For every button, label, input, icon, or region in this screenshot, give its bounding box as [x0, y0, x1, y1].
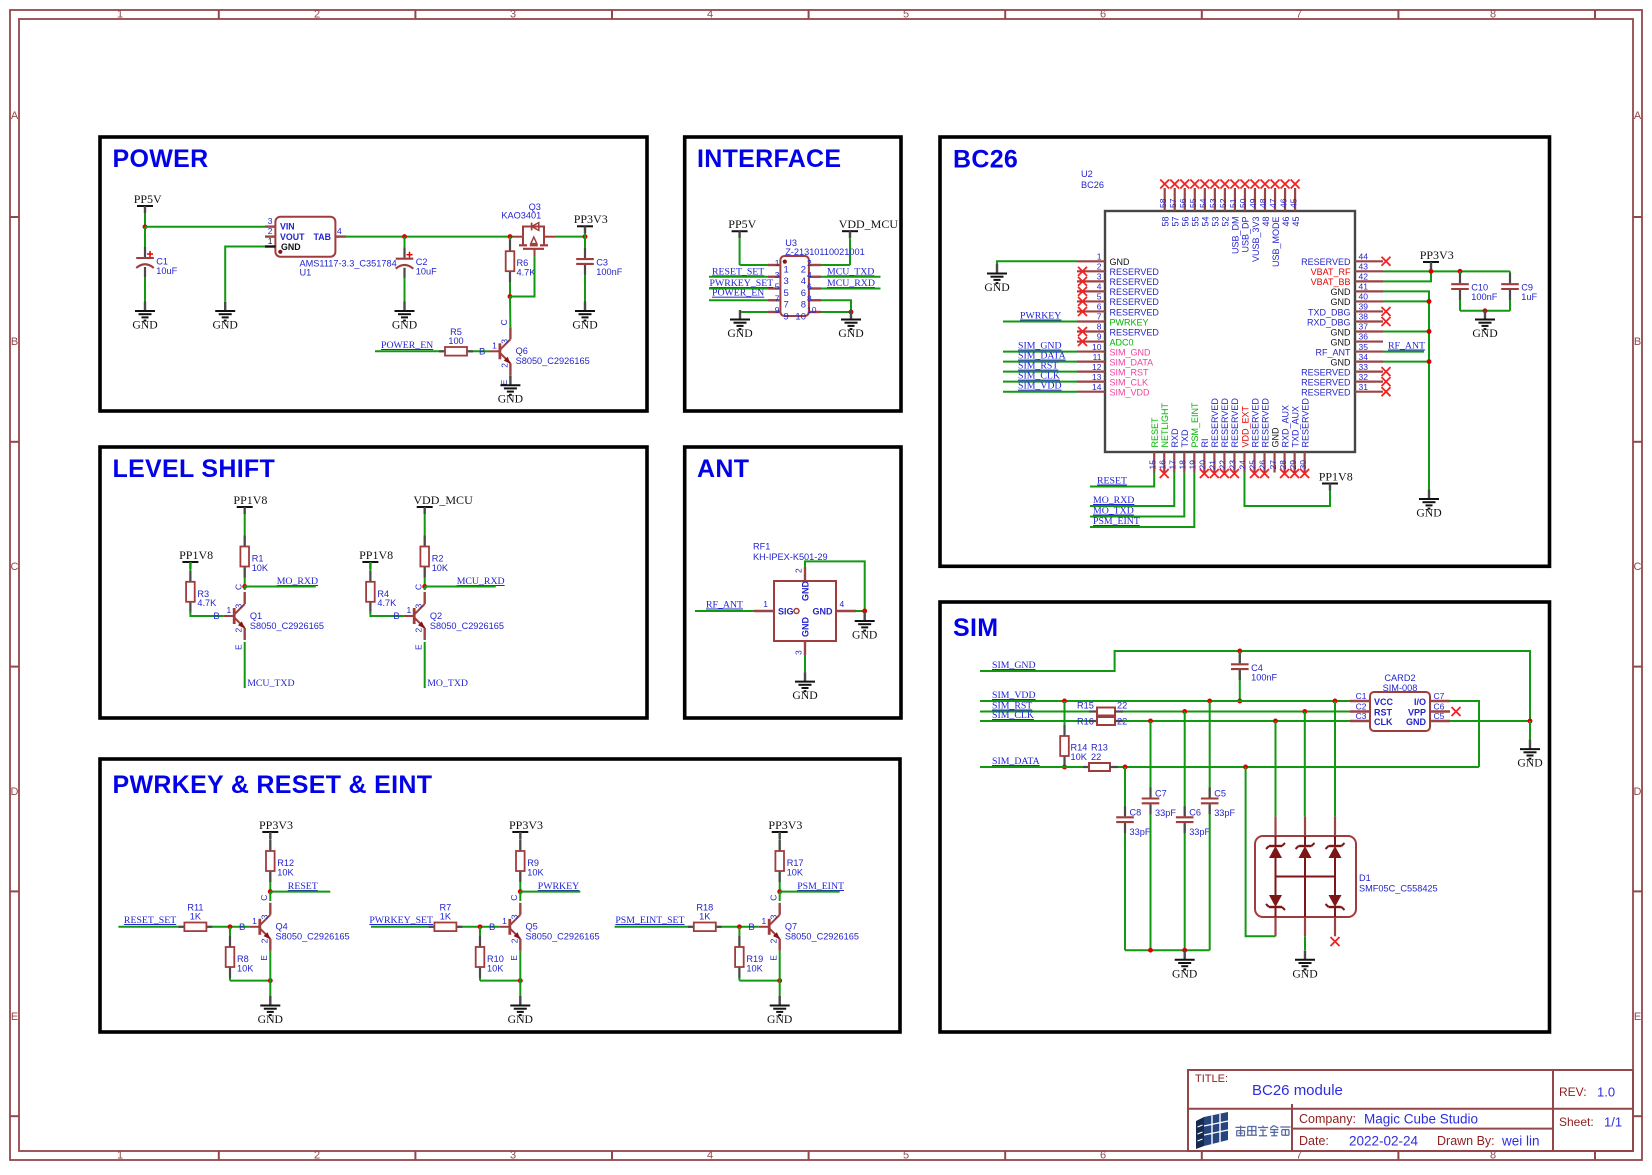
wire RF1 pin4: [856, 610, 865, 612]
wire R10 to emitter: [480, 980, 520, 982]
wire R11 to base: [212, 926, 249, 928]
svg-text:32: 32: [1359, 372, 1369, 382]
ground Q4: [258, 996, 283, 1026]
net label POWER_EN: [375, 340, 434, 351]
resistor R6: [506, 237, 537, 297]
svg-text:GND: GND: [792, 689, 817, 702]
svg-text:RESERVED: RESERVED: [1110, 327, 1160, 337]
svg-text:51: 51: [1228, 198, 1238, 208]
svg-text:RF_ANT: RF_ANT: [706, 600, 743, 611]
node junction C10 top: [1458, 269, 1463, 274]
ground bc26 rail: [1416, 490, 1441, 520]
ground under U1: [213, 302, 238, 332]
svg-text:10: 10: [807, 305, 817, 315]
wire U2 pin1 to ground: [997, 261, 1077, 264]
node junction C2: [402, 234, 407, 239]
svg-text:SIM_VDD: SIM_VDD: [992, 690, 1036, 701]
power flag PP1V8: [233, 493, 267, 538]
svg-text:ANT: ANT: [697, 455, 749, 483]
svg-text:6: 6: [1097, 302, 1102, 312]
svg-text:3: 3: [509, 914, 519, 919]
svg-text:S8050_C2926165: S8050_C2926165: [250, 621, 324, 631]
svg-text:7: 7: [1097, 312, 1102, 322]
transistor Q2: [393, 584, 504, 650]
svg-text:GND: GND: [1292, 967, 1317, 980]
svg-text:GND: GND: [838, 327, 863, 340]
ground under RF1: [792, 672, 817, 702]
svg-text:SIM_VDD: SIM_VDD: [1018, 381, 1062, 392]
wire SIM_VDD to D1: [1334, 701, 1336, 817]
svg-text:B: B: [393, 611, 399, 622]
wire R15 to card: [1123, 711, 1350, 713]
svg-text:VDD_EXT: VDD_EXT: [1240, 405, 1250, 447]
wire R16 to card: [1123, 720, 1350, 722]
svg-text:18: 18: [1177, 460, 1187, 470]
node junction C4 top: [1237, 649, 1242, 654]
svg-text:E: E: [769, 955, 779, 961]
svg-text:37: 37: [1359, 322, 1369, 332]
svg-text:B: B: [1634, 336, 1641, 348]
regulator U1 AMS1117-3.3: [265, 216, 397, 277]
node junction R13 right: [1123, 765, 1128, 770]
company logo building icon: [1196, 1112, 1228, 1149]
svg-text:4: 4: [807, 270, 812, 280]
svg-text:RI: RI: [1200, 439, 1210, 448]
svg-text:GND: GND: [213, 319, 238, 332]
capacitor C2: [396, 237, 437, 302]
svg-text:PP3V3: PP3V3: [1420, 248, 1454, 262]
wire Q4 emitter down: [269, 951, 271, 996]
svg-text:POWER_EN: POWER_EN: [712, 288, 764, 299]
svg-text:Q4: Q4: [276, 922, 288, 932]
svg-text:4.7K: 4.7K: [197, 598, 217, 608]
svg-text:C: C: [769, 895, 779, 901]
power flag PP3V3 of POWER: [574, 212, 608, 237]
wire card IO loop to SIM_DATA: [1450, 701, 1479, 767]
net label PWRKEY: [520, 881, 580, 892]
resistor R8: [226, 927, 255, 981]
svg-text:B: B: [489, 922, 495, 933]
node junction D1 vdd: [1333, 699, 1338, 704]
svg-text:6: 6: [1100, 9, 1106, 21]
svg-text:3: 3: [414, 604, 424, 609]
svg-text:RESERVED: RESERVED: [1230, 398, 1240, 448]
wire SIM_DATA to D1 bottom: [1246, 767, 1276, 936]
title block: [1188, 1070, 1633, 1151]
resistor R16: [1077, 717, 1127, 727]
svg-text:A: A: [11, 110, 19, 122]
svg-text:GND: GND: [852, 629, 877, 642]
svg-text:9: 9: [1097, 332, 1102, 342]
svg-text:RESET: RESET: [288, 881, 318, 892]
net label PSM_EINT_SET: [615, 915, 688, 927]
wire Q7 emitter down: [779, 951, 781, 996]
svg-text:GND: GND: [1517, 757, 1542, 770]
svg-text:POWER_EN: POWER_EN: [381, 340, 433, 351]
svg-text:PP1V8: PP1V8: [359, 548, 393, 562]
ground under Q6: [498, 376, 523, 406]
wire SIM_CLK to D1: [1275, 721, 1277, 817]
svg-text:7: 7: [775, 293, 780, 303]
svg-text:52: 52: [1218, 198, 1228, 208]
svg-text:GND: GND: [498, 393, 523, 406]
svg-text:RESERVED: RESERVED: [1301, 367, 1351, 377]
power flag PP3V3 bc26: [1420, 248, 1454, 272]
net label SIM_VDD bc26: [1003, 381, 1077, 392]
resistor R13: [1083, 743, 1118, 772]
svg-text:VCC: VCC: [1374, 697, 1394, 707]
svg-text:C: C: [11, 561, 19, 573]
svg-text:31: 31: [1359, 382, 1369, 392]
wire R7 to base: [462, 926, 499, 928]
INTERFACE section box: [685, 137, 901, 411]
resistor R9: [516, 840, 545, 892]
capacitor C8: [1116, 767, 1151, 950]
svg-text:RXD: RXD: [1170, 428, 1180, 448]
svg-text:RST: RST: [1374, 708, 1393, 718]
svg-text:1K: 1K: [190, 911, 202, 921]
svg-text:57: 57: [1171, 217, 1181, 227]
svg-text:11: 11: [1093, 352, 1102, 362]
svg-text:S8050_C2926165: S8050_C2926165: [785, 932, 859, 942]
svg-text:PP1V8: PP1V8: [1319, 469, 1353, 483]
svg-text:3: 3: [1097, 272, 1102, 282]
svg-text:48: 48: [1261, 217, 1271, 227]
tvs diode D1 SMF05C: [1255, 836, 1438, 917]
svg-text:39: 39: [1359, 302, 1369, 312]
svg-text:C3: C3: [1356, 711, 1367, 721]
svg-text:8: 8: [801, 300, 806, 311]
node junction R6 bottom: [508, 294, 513, 299]
svg-text:Drawn By:: Drawn By:: [1437, 1134, 1495, 1148]
svg-text:AMS1117-3.3_C351784: AMS1117-3.3_C351784: [300, 258, 397, 268]
svg-text:8: 8: [1490, 9, 1496, 21]
node junction D1 data: [1243, 765, 1248, 770]
svg-text:55: 55: [1191, 217, 1201, 227]
resistor R10: [476, 927, 505, 981]
svg-text:GND: GND: [508, 1013, 533, 1026]
svg-text:4.7K: 4.7K: [517, 267, 537, 277]
svg-text:RESERVED: RESERVED: [1110, 297, 1160, 307]
wire U2 gnd pins to rail: [1383, 291, 1429, 489]
svg-text:PSM_EINT: PSM_EINT: [797, 881, 844, 892]
wire Q2 collector: [424, 587, 426, 591]
svg-text:RXD_DBG: RXD_DBG: [1307, 317, 1351, 327]
svg-text:RESERVED: RESERVED: [1301, 377, 1351, 387]
svg-text:C7: C7: [1155, 789, 1167, 799]
svg-text:MO_TXD: MO_TXD: [427, 678, 468, 689]
IC U2 BC26 body: [1105, 211, 1355, 452]
svg-text:VPP: VPP: [1408, 708, 1426, 718]
node junction PP5V: [143, 224, 148, 229]
svg-text:43: 43: [1359, 262, 1369, 272]
svg-text:10K: 10K: [237, 963, 254, 973]
svg-text:8: 8: [807, 293, 812, 303]
ground caps sim: [1172, 950, 1197, 980]
node junction C4 bottom: [1237, 699, 1242, 704]
svg-text:36: 36: [1359, 332, 1369, 342]
net label PSM_EINT: [780, 881, 844, 892]
node junction R12 bottom: [268, 889, 273, 894]
wire VBAT_RF pin43 to PP3V3: [1383, 270, 1510, 272]
capacitor C9: [1501, 271, 1537, 310]
svg-text:7: 7: [784, 300, 789, 311]
svg-text:27: 27: [1268, 460, 1278, 470]
ground under C1: [132, 302, 157, 332]
svg-text:26: 26: [1258, 460, 1268, 470]
BC26 section box: [940, 137, 1550, 566]
svg-text:1K: 1K: [699, 911, 711, 921]
svg-text:22: 22: [1091, 752, 1101, 762]
header U3 Z-21310110021001: [768, 238, 865, 322]
ground under D1: [1292, 950, 1317, 980]
svg-text:4: 4: [840, 599, 845, 609]
net label POWER_EN interface: [709, 288, 768, 301]
svg-text:17: 17: [1167, 460, 1177, 470]
svg-text:1: 1: [492, 340, 497, 350]
svg-text:C: C: [509, 895, 519, 901]
svg-text:9: 9: [784, 311, 789, 322]
svg-text:GND: GND: [1331, 297, 1352, 307]
svg-text:100: 100: [448, 336, 463, 346]
svg-text:10K: 10K: [787, 867, 804, 877]
svg-text:10: 10: [1092, 342, 1102, 352]
ground card sim: [1517, 740, 1542, 770]
net label PWRKEY bc26: [1003, 311, 1077, 322]
svg-text:57: 57: [1168, 198, 1178, 208]
svg-text:3: 3: [769, 914, 779, 919]
svg-text:45: 45: [1288, 198, 1298, 208]
wire VBAT_BB pin42: [1383, 271, 1431, 281]
svg-text:1: 1: [268, 236, 273, 246]
svg-text:MCU_RXD: MCU_RXD: [827, 278, 875, 289]
svg-text:5: 5: [903, 9, 909, 21]
svg-text:10uF: 10uF: [416, 267, 437, 277]
wire U3 pin8 pin10 to ground: [821, 300, 851, 312]
svg-text:C: C: [1634, 561, 1642, 573]
power flag PP3V3 Q5: [509, 818, 543, 841]
svg-text:1: 1: [775, 258, 780, 268]
svg-text:10K: 10K: [432, 563, 449, 573]
net label MO_TXD bc26: [1090, 473, 1184, 517]
svg-text:PP5V: PP5V: [134, 192, 162, 206]
wire SIM_RST to D1: [1304, 712, 1306, 817]
wire R18 to base: [722, 926, 759, 928]
transistor Q4: [239, 895, 350, 961]
wire U1 GND pin to ground: [225, 247, 265, 302]
wire VDD_MCU to U3 pin2: [821, 264, 850, 266]
svg-text:3: 3: [259, 914, 269, 919]
svg-text:1: 1: [117, 1150, 123, 1162]
svg-text:E: E: [259, 955, 269, 961]
connector RF1 KH-IPEX-K501-29: [753, 542, 856, 656]
svg-text:54: 54: [1201, 217, 1211, 227]
svg-text:GND: GND: [1331, 287, 1352, 297]
node junction R14 top: [1062, 699, 1067, 704]
net label RESET: [270, 881, 330, 892]
svg-text:3: 3: [510, 1150, 516, 1162]
net label SIM_VDD sim: [980, 690, 1350, 701]
svg-text:33pF: 33pF: [1155, 808, 1176, 818]
svg-text:33pF: 33pF: [1214, 808, 1235, 818]
svg-text:52: 52: [1221, 217, 1231, 227]
svg-text:55: 55: [1188, 198, 1198, 208]
wire R5 to Q6 base: [478, 350, 490, 352]
wire RF1 pin3 to ground: [804, 655, 806, 672]
svg-text:PWRKEY & RESET & EINT: PWRKEY & RESET & EINT: [113, 771, 433, 799]
svg-text:2: 2: [268, 226, 273, 236]
svg-text:1: 1: [502, 916, 507, 926]
resistor R17: [775, 840, 804, 892]
sim card CARD2 SIM-008: [1350, 673, 1450, 731]
svg-text:4: 4: [1097, 282, 1102, 292]
svg-text:100nF: 100nF: [1471, 292, 1497, 302]
svg-text:1: 1: [784, 264, 789, 275]
svg-text:C2: C2: [416, 257, 428, 267]
POWER section box: [100, 137, 647, 411]
node junction PP3V3 bc26: [1429, 269, 1434, 274]
svg-text:54: 54: [1198, 198, 1208, 208]
node junction R17 bottom: [777, 889, 782, 894]
svg-text:C2: C2: [1356, 702, 1367, 712]
svg-text:GND: GND: [1406, 717, 1427, 727]
svg-text:3: 3: [499, 339, 509, 344]
net label SIM_RST bc26: [1003, 361, 1077, 372]
svg-text:PP5V: PP5V: [728, 217, 756, 231]
svg-text:10: 10: [795, 311, 806, 322]
svg-text:SIM_CLK: SIM_CLK: [992, 710, 1034, 721]
svg-text:S8050_C2926165: S8050_C2926165: [526, 932, 600, 942]
node junction pin10 gnd: [849, 310, 854, 315]
svg-text:34: 34: [1359, 352, 1369, 362]
svg-text:100nF: 100nF: [596, 267, 622, 277]
svg-text:SIM_DATA: SIM_DATA: [992, 756, 1040, 767]
svg-text:2022-02-24: 2022-02-24: [1349, 1134, 1419, 1149]
svg-text:PP1V8: PP1V8: [179, 548, 213, 562]
svg-text:TITLE:: TITLE:: [1195, 1073, 1228, 1085]
svg-text:19: 19: [1188, 460, 1198, 470]
svg-text:5: 5: [1097, 292, 1102, 302]
svg-text:1: 1: [117, 9, 123, 21]
svg-text:RESERVED: RESERVED: [1260, 398, 1270, 448]
svg-text:C: C: [259, 895, 269, 901]
svg-text:RESET: RESET: [1150, 417, 1160, 448]
capacitor C1: [136, 227, 177, 302]
node junction D1 rst: [1302, 709, 1307, 714]
wire D1 middle bottom to ground: [1304, 936, 1306, 950]
svg-text:13: 13: [1092, 372, 1102, 382]
svg-text:PP3V3: PP3V3: [509, 818, 543, 832]
svg-text:GND: GND: [801, 617, 811, 638]
svg-text:BC26: BC26: [1081, 180, 1104, 190]
net label PWRKEY_SET: [369, 915, 433, 927]
svg-text:A: A: [1634, 110, 1642, 122]
svg-text:2: 2: [794, 568, 804, 573]
svg-text:47: 47: [1268, 198, 1278, 208]
svg-text:MO_RXD: MO_RXD: [277, 576, 318, 587]
svg-text:B: B: [239, 922, 245, 933]
power flag PP3V3 Q4: [259, 818, 293, 841]
svg-text:C5: C5: [1434, 711, 1445, 721]
svg-text:4: 4: [707, 9, 713, 21]
svg-text:20: 20: [1198, 460, 1208, 470]
resistor R1: [240, 536, 269, 587]
svg-text:GND: GND: [813, 607, 834, 617]
svg-text:C7: C7: [1434, 691, 1445, 701]
svg-text:R16: R16: [1077, 717, 1094, 727]
capacitor C10: [1451, 271, 1498, 311]
svg-text:10K: 10K: [487, 963, 504, 973]
net label MO_TXD: [425, 642, 468, 689]
company logo chinese text: [1236, 1126, 1291, 1136]
node junction D1 clk: [1273, 719, 1278, 724]
svg-text:PP3V3: PP3V3: [259, 818, 293, 832]
svg-text:1: 1: [1097, 252, 1102, 262]
wire R3 to base: [190, 611, 223, 616]
svg-text:2: 2: [769, 938, 779, 943]
svg-text:48: 48: [1258, 198, 1268, 208]
svg-text:KAO3401: KAO3401: [501, 211, 541, 221]
node junction card gnd: [1528, 719, 1533, 724]
svg-text:C: C: [499, 319, 509, 325]
svg-text:GND: GND: [767, 1013, 792, 1026]
svg-text:10K: 10K: [277, 867, 294, 877]
svg-text:TXD_AUX: TXD_AUX: [1290, 406, 1300, 448]
svg-text:BC26: BC26: [953, 146, 1018, 174]
svg-text:PWRKEY: PWRKEY: [1020, 311, 1061, 322]
svg-text:28: 28: [1278, 460, 1288, 470]
transistor Q1: [213, 584, 324, 650]
svg-text:RESERVED: RESERVED: [1210, 398, 1220, 448]
svg-text:3: 3: [234, 604, 244, 609]
svg-text:PP3V3: PP3V3: [768, 818, 802, 832]
svg-text:22: 22: [1117, 701, 1127, 711]
wire U1 VOUT rail: [346, 236, 585, 238]
svg-text:GND: GND: [281, 242, 301, 252]
svg-text:RESERVED: RESERVED: [1110, 307, 1160, 317]
net label SIM_CLK sim: [980, 710, 1089, 721]
net label RF_ANT bc26: [1383, 341, 1425, 352]
node junction R6 top: [508, 234, 513, 239]
resistor R12: [266, 840, 295, 892]
power flag PP5V interface: [728, 217, 756, 265]
svg-text:2: 2: [234, 628, 244, 633]
svg-text:MCU_TXD: MCU_TXD: [827, 266, 874, 277]
svg-text:2: 2: [801, 264, 806, 275]
power flag VDD_MCU: [413, 493, 473, 538]
resistor R14: [1060, 701, 1088, 767]
resistor R15: [1077, 701, 1127, 716]
PWRKEY RESET EINT section box: [100, 759, 900, 1032]
svg-text:RESET: RESET: [1097, 476, 1127, 487]
svg-text:10K: 10K: [746, 963, 763, 973]
transistor Q7: [748, 895, 859, 961]
svg-text:C: C: [414, 584, 424, 590]
resistor R4: [366, 562, 397, 613]
svg-text:1K: 1K: [440, 911, 452, 921]
net label RESET_SET interface: [709, 266, 768, 277]
node junction emitter Q4: [268, 978, 273, 983]
resistor R2: [420, 536, 449, 587]
svg-text:16: 16: [1157, 460, 1167, 470]
svg-text:53: 53: [1211, 217, 1221, 227]
svg-text:Company:: Company:: [1299, 1112, 1356, 1126]
net label PSM_EINT bc26: [1090, 473, 1194, 528]
node junction rail C7: [1148, 948, 1153, 953]
wire Q5 emitter down: [519, 951, 521, 996]
svg-text:41: 41: [1359, 282, 1369, 292]
svg-text:RESERVED: RESERVED: [1220, 398, 1230, 448]
